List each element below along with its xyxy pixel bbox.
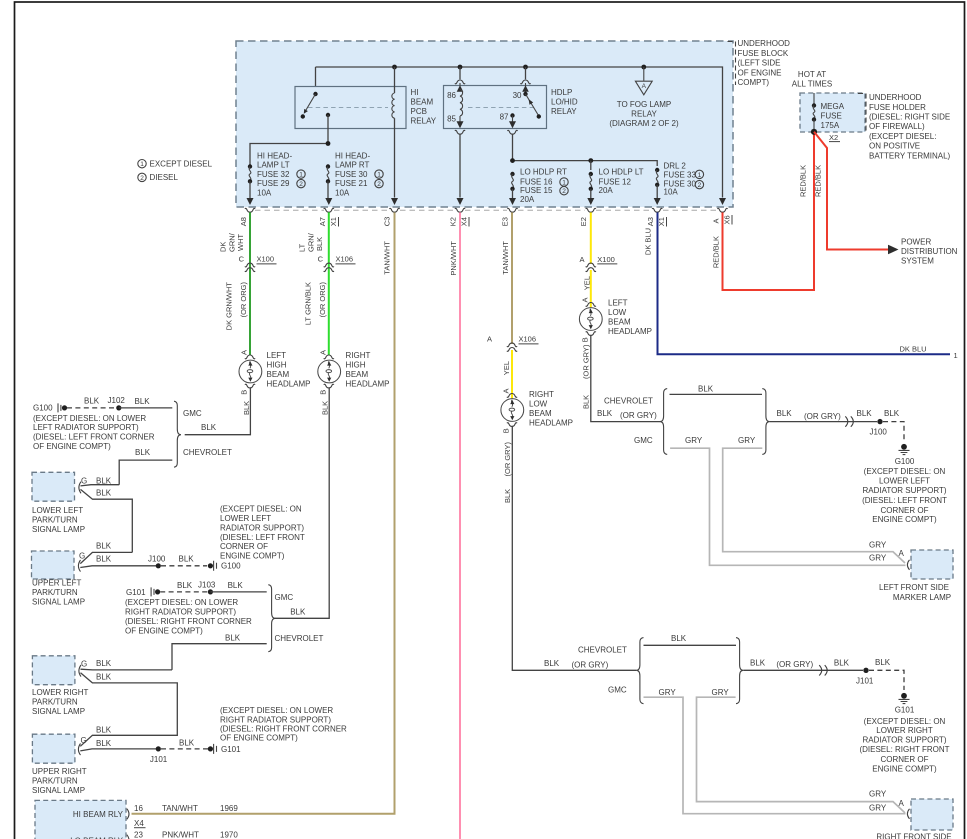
svg-text:BLK: BLK <box>750 659 766 668</box>
wire: BLK down to upper left lamp <box>81 489 133 552</box>
svg-text:GRY: GRY <box>659 688 677 697</box>
svg-text:X2: X2 <box>829 133 838 142</box>
svg-text:(DIESEL: RIGHT FRONT CORNER: (DIESEL: RIGHT FRONT CORNER <box>220 724 347 733</box>
svg-text:HDLP: HDLP <box>551 88 572 97</box>
svg-text:20A: 20A <box>520 195 535 204</box>
svg-text:CORNER OF: CORNER OF <box>881 755 929 764</box>
svg-text:BLK: BLK <box>777 409 793 418</box>
wire: TAN/WHT from C3 down to HI BEAM RLY pin 16 <box>132 212 395 813</box>
svg-text:BLK: BLK <box>201 423 217 432</box>
svg-text:X6: X6 <box>723 215 732 224</box>
svg-text:BLK: BLK <box>96 488 112 497</box>
svg-text:MARKER LAMP: MARKER LAMP <box>893 593 951 602</box>
svg-text:CORNER OF: CORNER OF <box>881 506 929 515</box>
fuse: LO HDLP LT (FUSE 12 20A) <box>589 172 593 176</box>
wire: GRY gmc inner stubs <box>644 697 906 814</box>
brace GMC/CHEVROLET for right high beam ground <box>268 585 275 652</box>
svg-text:YEL: YEL <box>502 361 511 375</box>
svg-text:RELAY: RELAY <box>551 107 577 116</box>
wire: BLK from right low beam B to lower brace <box>512 426 636 671</box>
relay coil (HI BEAM) <box>394 67 396 93</box>
svg-text:10A: 10A <box>257 189 272 198</box>
svg-text:LAMP RT: LAMP RT <box>335 161 369 170</box>
svg-text:BEAM: BEAM <box>267 370 290 379</box>
svg-text:SIGNAL LAMP: SIGNAL LAMP <box>32 786 85 795</box>
svg-text:PNK/WHT: PNK/WHT <box>449 241 458 276</box>
svg-text:2: 2 <box>698 182 702 189</box>
svg-text:DIESEL: DIESEL <box>150 173 179 182</box>
svg-text:X100: X100 <box>257 254 275 263</box>
svg-text:G101: G101 <box>895 706 915 715</box>
lamp: RIGHT HIGH BEAM HEADLAMP <box>324 355 334 359</box>
lamp box: LOWER LEFT PARK/TURN SIGNAL LAMP <box>32 472 75 501</box>
svg-text:ENGINE COMPT): ENGINE COMPT) <box>872 764 937 773</box>
svg-text:RADIATOR SUPPORT): RADIATOR SUPPORT) <box>220 523 304 532</box>
lamp: LEFT HIGH BEAM HEADLAMP <box>245 355 255 359</box>
fuse block label text <box>738 39 791 87</box>
svg-text:OF ENGINE COMPT): OF ENGINE COMPT) <box>125 626 203 635</box>
svg-text:G: G <box>81 660 87 669</box>
wire: DK GRN/WHT from A8 to left high beam headlamp <box>249 212 251 355</box>
svg-text:K2: K2 <box>449 217 458 226</box>
svg-text:2: 2 <box>562 188 566 195</box>
svg-text:LT: LT <box>297 243 306 252</box>
svg-text:86: 86 <box>447 91 456 100</box>
wire: BLK to J100 splice <box>80 566 158 568</box>
svg-text:(OR GRY): (OR GRY) <box>572 661 609 670</box>
svg-text:A8: A8 <box>239 217 248 226</box>
svg-text:1: 1 <box>954 351 958 360</box>
svg-text:LOW: LOW <box>529 399 548 408</box>
wire: 87 branch to LO HDLP fuses <box>513 161 658 166</box>
svg-text:BLK: BLK <box>96 725 112 734</box>
svg-text:HI: HI <box>411 88 419 97</box>
svg-text:A3: A3 <box>646 217 655 226</box>
svg-text:BLK: BLK <box>242 401 251 415</box>
svg-text:RIGHT: RIGHT <box>346 351 371 360</box>
svg-text:1: 1 <box>299 172 303 179</box>
svg-text:A: A <box>581 297 590 302</box>
svg-text:UNDERHOOD: UNDERHOOD <box>869 93 922 102</box>
relay box: HI BEAM RLY / LO BEAM RLY (bottom) <box>35 800 126 839</box>
svg-text:BLK: BLK <box>321 401 330 415</box>
svg-text:GMC: GMC <box>275 593 294 602</box>
svg-text:J101: J101 <box>150 755 168 764</box>
svg-text:LAMP LT: LAMP LT <box>257 161 290 170</box>
svg-text:LT GRN/BLK: LT GRN/BLK <box>304 282 313 325</box>
connector C/X100 inline <box>245 263 255 271</box>
svg-text:OF ENGINE COMPT): OF ENGINE COMPT) <box>33 442 111 451</box>
svg-text:LOWER LEFT: LOWER LEFT <box>220 514 271 523</box>
legend: except diesel / diesel <box>138 160 146 168</box>
svg-text:X4: X4 <box>134 819 144 828</box>
wire: BLK chevrolet inner <box>644 644 737 646</box>
svg-text:TAN/WHT: TAN/WHT <box>162 804 198 813</box>
svg-text:GRY: GRY <box>869 540 887 549</box>
svg-text:LO HDLP RT: LO HDLP RT <box>520 168 567 177</box>
svg-text:2: 2 <box>377 181 381 188</box>
svg-text:UNDERHOOD: UNDERHOOD <box>738 39 791 48</box>
svg-text:(DIESEL: LEFT FRONT: (DIESEL: LEFT FRONT <box>862 496 947 505</box>
svg-text:OF ENGINE: OF ENGINE <box>738 68 782 77</box>
fuse holder label bracket <box>858 94 866 134</box>
svg-text:DK BLU: DK BLU <box>644 228 653 255</box>
svg-text:SYSTEM: SYSTEM <box>901 257 934 266</box>
svg-text:YEL: YEL <box>582 276 591 290</box>
wire: BLK from left high beam B to brace <box>185 387 251 434</box>
svg-text:(OR GRY): (OR GRY) <box>503 442 512 477</box>
svg-text:WHT: WHT <box>236 234 245 251</box>
svg-text:(EXCEPT DIESEL: ON: (EXCEPT DIESEL: ON <box>864 717 946 726</box>
svg-text:1969: 1969 <box>220 804 238 813</box>
svg-text:J100: J100 <box>148 554 166 563</box>
svg-text:LOWER LEFT: LOWER LEFT <box>32 506 83 515</box>
underhood fuse block (left side of engine compt) <box>236 41 733 207</box>
svg-text:(OR ORG): (OR ORG) <box>239 282 248 318</box>
svg-text:J101: J101 <box>856 676 874 685</box>
svg-text:FUSE BLOCK: FUSE BLOCK <box>738 49 789 58</box>
svg-text:10A: 10A <box>335 189 350 198</box>
svg-text:J103: J103 <box>198 580 216 589</box>
wire: BLK up branch <box>81 668 173 671</box>
svg-text:A: A <box>712 218 721 223</box>
wire: YEL E2 to X100 <box>590 212 592 264</box>
svg-text:HI BEAM RLY: HI BEAM RLY <box>73 810 124 819</box>
svg-text:TAN/WHT: TAN/WHT <box>382 241 391 275</box>
lamp box: LOWER RIGHT PARK/TURN SIGNAL LAMP <box>32 656 75 685</box>
svg-text:B: B <box>240 390 249 395</box>
svg-text:A: A <box>899 799 905 808</box>
svg-text:BLK: BLK <box>503 489 512 503</box>
svg-text:FUSE 32: FUSE 32 <box>257 170 290 179</box>
relay switch contact to fuses <box>326 113 330 117</box>
svg-text:RADIATOR SUPPORT): RADIATOR SUPPORT) <box>862 486 946 495</box>
svg-text:RED/BLK: RED/BLK <box>711 236 720 268</box>
svg-text:BLK: BLK <box>857 409 873 418</box>
svg-text:2: 2 <box>299 181 303 188</box>
svg-text:GMC: GMC <box>634 436 653 445</box>
svg-text:175A: 175A <box>821 121 840 130</box>
svg-text:G: G <box>81 476 87 485</box>
svg-text:GMC: GMC <box>608 686 627 695</box>
svg-text:BLK: BLK <box>290 608 306 617</box>
svg-text:CHEVROLET: CHEVROLET <box>578 645 627 654</box>
svg-text:(OR GRY): (OR GRY) <box>776 660 813 669</box>
svg-text:BLK: BLK <box>544 659 560 668</box>
node J102 <box>116 405 121 410</box>
svg-text:GRY: GRY <box>869 803 887 812</box>
text block except diesel (left) <box>33 414 155 451</box>
svg-text:OF FIREWALL): OF FIREWALL) <box>869 122 925 131</box>
svg-text:G: G <box>79 551 85 560</box>
svg-text:G100: G100 <box>33 404 53 413</box>
svg-text:RED/BLK: RED/BLK <box>798 165 807 197</box>
svg-text:J100: J100 <box>870 427 888 436</box>
wire: TAN/WHT E3 to X106 <box>511 212 513 344</box>
svg-text:BEAM: BEAM <box>411 97 434 106</box>
svg-text:RIGHT RADIATOR SUPPORT): RIGHT RADIATOR SUPPORT) <box>220 715 331 724</box>
wire: BLK down to upper right lamp <box>80 673 177 747</box>
svg-text:PARK/TURN: PARK/TURN <box>32 515 78 524</box>
svg-text:BLK: BLK <box>671 634 687 643</box>
svg-text:1: 1 <box>562 180 566 187</box>
svg-text:BLK: BLK <box>96 672 112 681</box>
wire: BLK out to J101 <box>743 669 863 671</box>
svg-text:CHEVROLET: CHEVROLET <box>275 634 324 643</box>
svg-text:E3: E3 <box>501 217 510 226</box>
svg-text:FUSE 30: FUSE 30 <box>335 170 368 179</box>
svg-text:TO FOG LAMP: TO FOG LAMP <box>617 100 672 109</box>
svg-text:LEFT FRONT SIDE: LEFT FRONT SIDE <box>879 583 949 592</box>
svg-text:X106: X106 <box>519 334 537 343</box>
relay coil 86/85 <box>460 90 463 116</box>
wire: BLK chevrolet inner <box>670 393 763 395</box>
svg-text:HI HEAD-: HI HEAD- <box>257 151 292 160</box>
svg-text:(DIESEL: RIGHT FRONT: (DIESEL: RIGHT FRONT <box>859 745 949 754</box>
svg-text:DK BLU: DK BLU <box>900 345 927 354</box>
svg-text:BLK: BLK <box>96 541 112 550</box>
node: mega fuse output junction <box>811 129 817 135</box>
svg-text:(EXCEPT DIESEL: ON: (EXCEPT DIESEL: ON <box>220 504 302 513</box>
svg-text:G100: G100 <box>221 562 241 571</box>
wire: RED/BLK from A/X6 up to mega fuse <box>723 134 815 291</box>
svg-text:FUSE 29: FUSE 29 <box>257 179 290 188</box>
brace GMC/CHEVROLET for left high beam ground <box>174 401 181 467</box>
svg-text:GMC: GMC <box>183 409 202 418</box>
svg-text:GRY: GRY <box>685 436 703 445</box>
svg-text:(OR GRY): (OR GRY) <box>581 344 590 379</box>
fuse: LO HDLP RT (FUSE 16/15 20A) <box>510 172 514 176</box>
svg-text:RADIATOR SUPPORT): RADIATOR SUPPORT) <box>862 736 946 745</box>
svg-text:UPPER RIGHT: UPPER RIGHT <box>32 767 87 776</box>
relay U2: HDLP LO/HID RELAY <box>444 86 547 129</box>
wire: PNK/WHT from K2 down to LO BEAM RLY pin 23 <box>459 212 461 839</box>
svg-text:DISTRIBUTION: DISTRIBUTION <box>901 247 958 256</box>
svg-text:BLK: BLK <box>834 659 850 668</box>
svg-text:BLK: BLK <box>228 581 244 590</box>
svg-text:C: C <box>318 254 324 263</box>
svg-text:EXCEPT DIESEL: EXCEPT DIESEL <box>150 160 213 169</box>
fuse: HI HEAD-LAMP RT (FUSE 30/21 10A) <box>326 164 330 168</box>
svg-text:HIGH: HIGH <box>346 360 366 369</box>
wire: BLK to J101 splice <box>80 749 158 751</box>
svg-text:BLK: BLK <box>581 395 590 409</box>
svg-text:B: B <box>319 390 328 395</box>
wire: bus drop to HI BEAM relay switch <box>315 67 317 94</box>
svg-text:B: B <box>581 337 590 342</box>
svg-text:BEAM: BEAM <box>529 409 552 418</box>
svg-text:1: 1 <box>698 172 702 179</box>
svg-text:ON POSITIVE: ON POSITIVE <box>869 142 920 151</box>
svg-text:A: A <box>579 255 584 264</box>
svg-text:J102: J102 <box>108 396 126 405</box>
svg-text:BLK: BLK <box>597 409 613 418</box>
text block except diesel (mid lower) <box>220 706 347 743</box>
svg-text:DRL 2: DRL 2 <box>664 161 687 170</box>
svg-text:DK GRN/WHT: DK GRN/WHT <box>225 282 234 331</box>
svg-text:CHEVROLET: CHEVROLET <box>604 397 653 406</box>
fuse: HI HEAD-LAMP LT (FUSE 32/29 10A) <box>250 144 328 167</box>
svg-text:GRY: GRY <box>869 554 887 563</box>
svg-text:G101: G101 <box>221 745 241 754</box>
svg-text:CHEVROLET: CHEVROLET <box>183 448 232 457</box>
svg-text:BLK: BLK <box>96 739 112 748</box>
svg-text:COMPT): COMPT) <box>738 78 770 87</box>
svg-text:A: A <box>502 388 511 393</box>
svg-text:BLK: BLK <box>225 633 241 642</box>
pin 86 entry <box>459 67 461 79</box>
svg-text:(EXCEPT DIESEL:: (EXCEPT DIESEL: <box>869 132 936 141</box>
svg-text:MEGA: MEGA <box>821 102 845 111</box>
svg-text:C3: C3 <box>383 217 392 227</box>
svg-text:FUSE HOLDER: FUSE HOLDER <box>869 103 926 112</box>
svg-text:POWER: POWER <box>901 238 931 247</box>
svg-text:BLK: BLK <box>177 581 193 590</box>
svg-text:1970: 1970 <box>220 831 238 839</box>
wire: BLK dashed splice J102 <box>67 407 116 409</box>
svg-text:GRY: GRY <box>738 436 756 445</box>
brace right <box>762 389 769 455</box>
wire: YEL to right low beam headlamp <box>511 350 513 398</box>
svg-text:2: 2 <box>140 175 144 182</box>
svg-text:ENGINE COMPT): ENGINE COMPT) <box>220 552 285 561</box>
svg-text:BLK: BLK <box>96 659 112 668</box>
svg-text:(EXCEPT DIESEL: ON LOWER: (EXCEPT DIESEL: ON LOWER <box>220 706 333 715</box>
svg-text:85: 85 <box>447 114 456 123</box>
exit pin labels <box>239 215 732 226</box>
svg-text:BLK: BLK <box>315 237 324 251</box>
svg-text:X1: X1 <box>329 217 338 226</box>
svg-text:PNK/WHT: PNK/WHT <box>162 831 199 839</box>
lamp box: UPPER LEFT PARK/TURN SIGNAL LAMP <box>32 551 75 579</box>
svg-text:GRY: GRY <box>869 789 887 798</box>
svg-text:A: A <box>642 83 647 90</box>
svg-text:HIGH: HIGH <box>267 360 287 369</box>
brace right <box>736 638 743 704</box>
svg-text:DK: DK <box>219 242 228 252</box>
relay switch blade <box>305 94 316 112</box>
svg-text:RELAY: RELAY <box>411 116 437 125</box>
svg-text:16: 16 <box>134 804 143 813</box>
svg-text:SIGNAL LAMP: SIGNAL LAMP <box>32 525 85 534</box>
svg-text:LOW: LOW <box>608 308 627 317</box>
svg-text:SIGNAL LAMP: SIGNAL LAMP <box>32 707 85 716</box>
svg-text:A7: A7 <box>318 217 327 226</box>
lamp box: UPPER RIGHT PARK/TURN SIGNAL LAMP <box>32 734 75 763</box>
svg-text:G101: G101 <box>126 588 146 597</box>
svg-text:BEAM: BEAM <box>608 317 631 326</box>
svg-text:BLK: BLK <box>135 397 151 406</box>
svg-text:BLK: BLK <box>96 555 112 564</box>
svg-text:FUSE 21: FUSE 21 <box>335 179 368 188</box>
svg-text:LO/HID: LO/HID <box>551 97 578 106</box>
svg-text:LEFT RADIATOR SUPPORT): LEFT RADIATOR SUPPORT) <box>33 423 139 432</box>
brace left <box>660 389 667 455</box>
svg-text:SIGNAL LAMP: SIGNAL LAMP <box>32 598 85 607</box>
svg-text:UPPER LEFT: UPPER LEFT <box>32 579 81 588</box>
pin 30 entry + switch <box>525 67 527 79</box>
svg-text:PCB: PCB <box>411 107 427 116</box>
svg-text:10A: 10A <box>664 187 679 196</box>
svg-text:FUSE 33: FUSE 33 <box>664 170 697 179</box>
connector A/X106 inline <box>507 343 517 351</box>
svg-text:ALL TIMES: ALL TIMES <box>792 79 832 88</box>
svg-text:FUSE: FUSE <box>821 111 842 120</box>
fuse: DRL 2 (FUSE 33/30 10A) <box>655 168 659 172</box>
wire: BLK from right high beam B to G101 brace <box>275 387 329 618</box>
svg-text:X100: X100 <box>597 255 615 264</box>
svg-text:BLK: BLK <box>179 554 195 563</box>
svg-text:LOWER RIGHT: LOWER RIGHT <box>876 726 933 735</box>
wire: GRY gmc inner stubs <box>670 448 905 565</box>
svg-text:LEFT: LEFT <box>608 298 628 307</box>
wire: chevrolet branch to lower right park lamp <box>172 644 267 670</box>
to fog lamp relay symbol <box>643 67 645 81</box>
svg-text:HOT AT: HOT AT <box>798 70 826 79</box>
svg-text:1: 1 <box>140 161 144 168</box>
svg-text:87: 87 <box>500 112 509 121</box>
svg-text:HEADLAMP: HEADLAMP <box>267 379 311 388</box>
ground G100 (right) <box>899 444 910 455</box>
svg-text:GRY: GRY <box>712 688 730 697</box>
svg-text:HI HEAD-: HI HEAD- <box>335 151 370 160</box>
svg-text:PARK/TURN: PARK/TURN <box>32 697 78 706</box>
svg-text:PARK/TURN: PARK/TURN <box>32 588 78 597</box>
svg-text:(OR GRY): (OR GRY) <box>804 412 841 421</box>
svg-text:A: A <box>487 334 492 343</box>
node: bus junction dots <box>392 65 397 70</box>
svg-text:BLK: BLK <box>698 384 714 393</box>
svg-text:HEADLAMP: HEADLAMP <box>529 418 573 427</box>
svg-text:TAN/WHT: TAN/WHT <box>501 241 510 275</box>
ground G101 (right) <box>899 693 910 704</box>
svg-text:(DIAGRAM 2 OF 2): (DIAGRAM 2 OF 2) <box>609 119 679 128</box>
svg-text:A: A <box>899 549 905 558</box>
svg-text:(DIESEL: LEFT FRONT CORNER: (DIESEL: LEFT FRONT CORNER <box>33 433 155 442</box>
wire: DK BLU from A3 <box>658 212 951 354</box>
svg-text:(EXCEPT DIESEL: ON: (EXCEPT DIESEL: ON <box>864 467 946 476</box>
svg-text:B: B <box>502 428 511 433</box>
svg-text:(EXCEPT DIESEL: ON LOWER: (EXCEPT DIESEL: ON LOWER <box>125 598 238 607</box>
wire: RED/BLK to power distribution system <box>814 132 889 250</box>
svg-text:ENGINE COMPT): ENGINE COMPT) <box>872 515 937 524</box>
wire: LT GRN/BLK from A7 to right high beam headlamp <box>328 212 330 355</box>
wire: chevrolet branch to lower left park lamp <box>119 460 172 485</box>
wire: BLK from left low beam B to chevrolet/gmc brace <box>591 335 660 422</box>
svg-text:LOWER RIGHT: LOWER RIGHT <box>32 688 89 697</box>
svg-text:(OR GRY): (OR GRY) <box>620 411 657 420</box>
svg-text:(LEFT SIDE: (LEFT SIDE <box>738 59 781 68</box>
relay switch common <box>313 92 317 96</box>
svg-text:RIGHT RADIATOR SUPPORT): RIGHT RADIATOR SUPPORT) <box>125 607 236 616</box>
svg-text:RELAY: RELAY <box>631 109 657 118</box>
fuse: MEGA FUSE 175A <box>813 93 815 106</box>
lamp: LEFT LOW BEAM HEADLAMP <box>586 303 596 307</box>
svg-text:RED/BLK: RED/BLK <box>813 165 822 197</box>
fuse block label bracket <box>728 42 736 86</box>
svg-text:30: 30 <box>513 91 522 100</box>
svg-text:(DIESEL: RIGHT SIDE: (DIESEL: RIGHT SIDE <box>869 113 950 122</box>
svg-text:(DIESEL: RIGHT FRONT CORNER: (DIESEL: RIGHT FRONT CORNER <box>125 617 252 626</box>
svg-text:(DIESEL: LEFT FRONT: (DIESEL: LEFT FRONT <box>220 533 305 542</box>
svg-text:BLK: BLK <box>875 658 891 667</box>
svg-text:BLK: BLK <box>84 396 100 405</box>
svg-text:A: A <box>319 350 328 355</box>
underhood fuse holder (mega fuse) box <box>800 93 865 132</box>
svg-text:(OR ORG): (OR ORG) <box>318 282 327 318</box>
svg-text:C: C <box>239 254 245 263</box>
text block except diesel (mid) <box>220 504 305 560</box>
